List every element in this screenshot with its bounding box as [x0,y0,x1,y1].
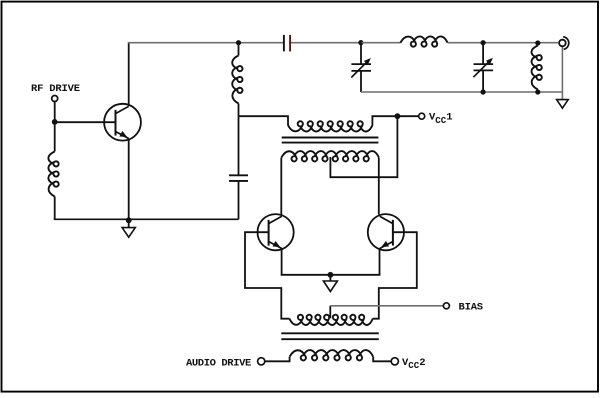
ground below Q1 emitter [122,228,135,238]
wire T1 secondary left lead to Q2 collector [280,158,282,215]
svg-text:1: 1 [446,112,452,124]
wire Q2 emitter down [281,248,283,275]
node L4 bottom [535,89,540,94]
ground below push-pull pair [323,281,337,292]
node VC2 bottom [481,89,486,94]
wire T2 primary left lead [265,357,289,362]
terminal BIAS [443,303,449,309]
wire C2 to bottom rail [238,181,240,219]
inductor L3 [400,36,447,46]
inductor L4 [531,46,541,90]
transformer T2 core [281,333,379,339]
wire RF drive terminal to base node [54,102,56,122]
wire BIAS lead [330,305,443,307]
inductor L1 [48,152,58,197]
node emitter centre [328,272,334,278]
label VCC1 [429,112,453,126]
wire Q2 base path [245,232,290,319]
wire base node down to L1 [54,122,56,152]
wire Q1 collector riser [128,43,130,106]
transformer T1 secondary winding [282,151,379,161]
capacitor C1 right plate [289,35,291,52]
label RF DRIVE [31,83,80,95]
wire L2 bottom lead [238,104,240,117]
wire filter bottom rail [361,91,563,93]
node VC1 top [358,40,363,45]
terminal RF DRIVE [52,96,58,102]
wire ground stem centre [329,275,331,281]
label AUDIO DRIVE [186,357,251,369]
capacitor C1 left plate [283,35,285,52]
wire emitter rail [281,274,381,276]
terminal AUDIO DRIVE [258,358,265,365]
transistor Q2 [258,214,294,250]
label BIAS [459,302,483,314]
transformer T2 secondary winding (base drive) [289,315,372,325]
capacitor C2 [229,175,248,181]
label VCC2 [402,357,426,371]
transistor Q1 [104,104,141,141]
node VC2 top [481,40,486,45]
wire Q3 emitter down [379,248,381,275]
wire top rail L3 to output [448,42,558,44]
wire Q1 base [55,121,116,123]
variable capacitor VC1 [351,43,371,92]
node base junction [52,119,58,125]
wire Q3 base path [373,232,417,319]
wire T2 centre tap [329,306,331,319]
node VCC1 junction [395,113,401,119]
wire ground stem output [561,92,563,100]
node L4 top [535,40,540,45]
terminal RF output [559,37,569,50]
wire T1 primary right lead [372,116,419,125]
ground at RF output [557,100,569,109]
transistor Q3 [368,214,404,250]
transformer T1 core [282,138,379,143]
node L2 top [236,40,241,45]
terminal VCC2 [391,358,398,365]
wire Q1 emitter down [128,139,130,222]
wire top rail C1 to VC1 [291,42,361,44]
wire L2 bottom to C2 [238,116,240,175]
svg-text:RF DRIVE: RF DRIVE [31,83,80,95]
wire T2 primary right lead [373,357,391,362]
wire top rail left segment [128,42,283,44]
wire T1 primary left lead [239,116,289,125]
svg-text:BIAS: BIAS [459,302,483,314]
wire output terminal drop [561,47,563,93]
inductor L2 [232,56,242,104]
variable capacitor VC2 [473,43,493,92]
svg-text:AUDIO DRIVE: AUDIO DRIVE [186,357,251,369]
svg-text:2: 2 [419,357,425,369]
wire T1 secondary right lead to Q3 collector [378,158,380,215]
wire bottom-left rail [54,218,239,220]
transformer T1 primary winding [288,121,372,131]
wire L1 to bottom rail [54,197,56,220]
wire ground stem Q1 [128,220,130,227]
svg-text:CC: CC [435,116,446,126]
svg-text:CC: CC [408,361,419,371]
wire L2 top lead [238,43,240,56]
transformer T2 primary winding (audio) [290,350,373,360]
wire T1 centre tap [330,116,397,177]
node emitter-ground junction [126,217,132,223]
terminal VCC1 [419,113,425,119]
wire top rail VC1 to L3 [361,42,401,44]
